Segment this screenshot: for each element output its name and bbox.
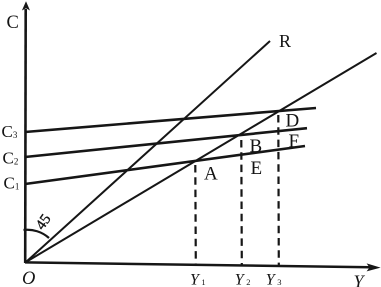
vertical axis C: [24, 9, 27, 263]
dashed line Y2: [240, 140, 243, 265]
svg-text:R: R: [279, 31, 291, 51]
svg-text:C3: C3: [2, 122, 18, 141]
45-degree line: [26, 53, 377, 262]
svg-text:Y1: Y1: [190, 272, 206, 287]
consumption line C1: [25, 146, 305, 184]
svg-text:C: C: [7, 13, 19, 33]
consumption line C2: [25, 128, 307, 157]
svg-text:C2: C2: [3, 149, 19, 168]
svg-text:D: D: [286, 110, 300, 131]
svg-text:C1: C1: [4, 174, 20, 193]
vertical axis arrowhead: [22, 1, 30, 10]
svg-text:O: O: [22, 269, 35, 287]
dashed line Y1: [194, 165, 197, 264]
svg-text:B: B: [250, 136, 263, 157]
consumption line C3: [25, 108, 316, 132]
line R: [26, 41, 270, 262]
svg-text:Y2: Y2: [235, 272, 251, 287]
45-degree arc: [24, 230, 50, 238]
svg-text:F: F: [289, 131, 300, 152]
svg-text:E: E: [251, 158, 263, 179]
svg-text:Y: Y: [354, 272, 366, 287]
dashed line Y3: [277, 115, 280, 266]
svg-text:A: A: [204, 164, 218, 185]
horizontal axis arrowhead: [367, 263, 381, 271]
svg-text:Y3: Y3: [266, 272, 282, 287]
horizontal axis Y: [25, 262, 370, 267]
